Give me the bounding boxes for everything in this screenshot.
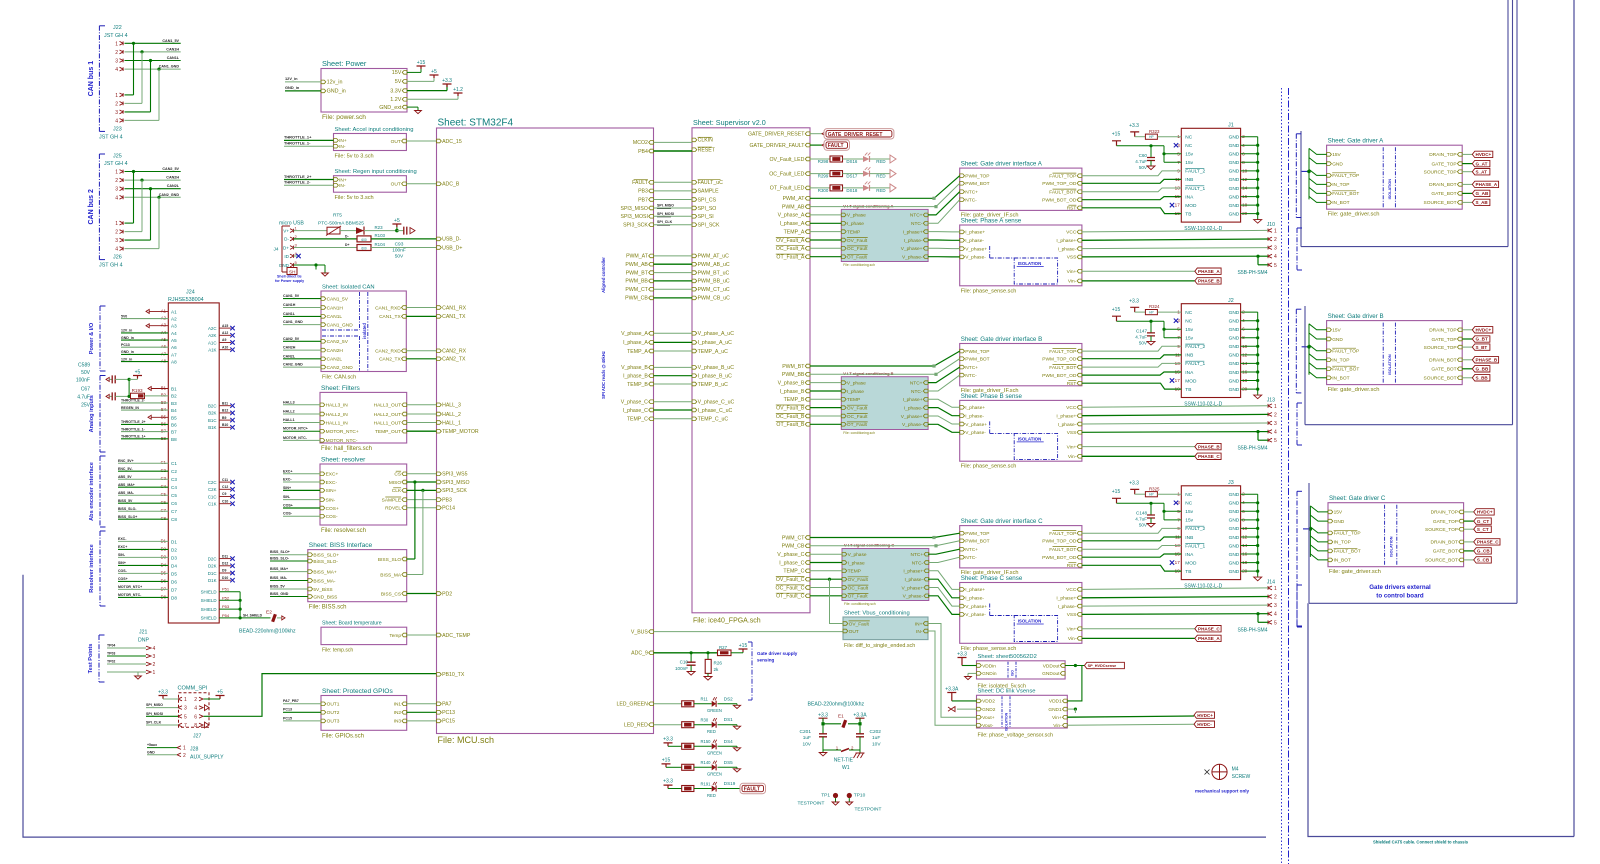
svg-text:BiSS_SLO+: BiSS_SLO+: [313, 553, 339, 559]
svg-text:DRAIN_BOT: DRAIN_BOT: [1429, 358, 1457, 364]
svg-text:15v: 15v: [1185, 518, 1193, 524]
svg-text:PTC-500mA BBM525: PTC-500mA BBM525: [318, 221, 364, 227]
svg-text:PWM_TOP_OD: PWM_TOP_OD: [1042, 181, 1077, 187]
wire bus hall out: [407, 404, 437, 406]
svg-text:TEMP: TEMP: [848, 569, 861, 575]
svg-text:GND_BiSS: GND_BiSS: [313, 594, 337, 600]
svg-text:V_phase+: V_phase+: [901, 414, 923, 420]
bracket J10 cable: [1296, 228, 1298, 270]
bracket Abs encoder interface: [99, 456, 101, 527]
svg-text:Sheet: Vbus_conditioning: Sheet: Vbus_conditioning: [844, 610, 910, 616]
svg-text:5V0: 5V0: [121, 314, 127, 318]
svg-text:C12: C12: [222, 485, 228, 489]
svg-text:600: 600: [361, 238, 367, 242]
svg-text:B5: B5: [171, 415, 177, 420]
svg-text:C2K: C2K: [208, 487, 217, 492]
svg-text:CAN2_5V: CAN2_5V: [283, 337, 300, 341]
ground J2: [1257, 312, 1259, 389]
svg-text:FAULT_2: FAULT_2: [1185, 344, 1205, 350]
svg-text:DS18: DS18: [846, 188, 858, 193]
svg-text:SP_HVDCsense: SP_HVDCsense: [1088, 664, 1117, 668]
svg-text:BISS_SLO+: BISS_SLO+: [270, 550, 290, 554]
isolation boundary phase sense A: [1014, 258, 1057, 284]
svg-text:IN+: IN+: [339, 138, 347, 144]
wire bus supervisor to conditioning B: [810, 382, 841, 384]
svg-text:OT_Fault: OT_Fault: [847, 422, 868, 428]
svg-text:mechanical support only: mechanical support only: [1195, 789, 1250, 794]
svg-text:C93: C93: [395, 241, 404, 247]
svg-text:VCC: VCC: [1066, 587, 1077, 593]
svg-text:+3.3: +3.3: [1129, 481, 1139, 487]
capacitor C10 (100nF): [690, 653, 692, 662]
svg-text:V_phase_C_uC: V_phase_C_uC: [698, 400, 735, 406]
svg-text:P51: P51: [222, 587, 230, 592]
svg-text:THROTTLE_1+: THROTTLE_1+: [121, 435, 146, 439]
svg-text:FAULT_BOT: FAULT_BOT: [1332, 191, 1359, 197]
svg-text:3: 3: [115, 238, 118, 244]
svg-text:CAN2L: CAN2L: [167, 184, 180, 188]
svg-text:GND: GND: [1229, 353, 1240, 359]
svg-text:R325: R325: [1149, 486, 1160, 491]
svg-text:12V_in: 12V_in: [121, 357, 132, 361]
svg-text:12V_in: 12V_in: [285, 76, 298, 81]
svg-text:1: 1: [115, 221, 118, 227]
svg-text:2k: 2k: [714, 667, 720, 672]
svg-text:IN_TOP: IN_TOP: [1334, 540, 1351, 546]
wire bus resolver-MCU SPI3: [407, 473, 437, 475]
svg-text:D2K: D2K: [208, 564, 217, 569]
svg-text:RDVEL: RDVEL: [385, 506, 401, 512]
svg-text:B11: B11: [222, 401, 228, 405]
svg-text:PWM_CB: PWM_CB: [625, 296, 648, 302]
svg-text:PWM_TOP: PWM_TOP: [965, 349, 989, 355]
svg-text:17: 17: [1175, 560, 1181, 565]
svg-text:2: 2: [1274, 237, 1277, 243]
wire bus SPI J27: [146, 707, 178, 709]
LED DS2 (green status): [654, 703, 682, 705]
svg-text:OC_Fault_A: OC_Fault_A: [776, 246, 805, 252]
svg-text:IN+: IN+: [915, 621, 923, 627]
svg-text:to control board: to control board: [1376, 592, 1424, 599]
svg-text:GATE_DRIVER_FAULT: GATE_DRIVER_FAULT: [750, 143, 806, 149]
svg-text:GREEN: GREEN: [707, 751, 722, 756]
svg-text:File: GPIOs.sch: File: GPIOs.sch: [322, 733, 364, 739]
connector J28 (AUX_SUPPLY): [177, 746, 181, 750]
svg-text:PWM_BT_uC: PWM_BT_uC: [698, 270, 730, 276]
svg-text:600: 600: [361, 247, 367, 251]
group B phase wires: [928, 399, 960, 407]
svg-text:OT_Fault_C: OT_Fault_C: [776, 594, 805, 600]
svg-text:OV_Fault_LED: OV_Fault_LED: [770, 157, 805, 163]
svg-text:S_CT: S_CT: [1477, 527, 1489, 532]
svg-text:SPI_SO: SPI_SO: [698, 206, 717, 212]
svg-text:GND: GND: [1332, 161, 1343, 167]
svg-text:Sheet: Power: Sheet: Power: [322, 59, 367, 68]
svg-text:1: 1: [1274, 586, 1277, 592]
svg-text:R140: R140: [701, 760, 712, 765]
svg-text:R26: R26: [714, 661, 723, 666]
svg-text:PWM_BOT_OD: PWM_BOT_OD: [1042, 198, 1077, 204]
svg-text:J2: J2: [1228, 298, 1234, 304]
svg-text:15V: 15V: [1332, 328, 1341, 334]
capacitor C93 (100nF 50V): [397, 230, 404, 232]
ground J1: [1257, 137, 1259, 214]
wire bus supervisor to conditioning A: [810, 214, 841, 216]
svg-text:GND: GND: [1229, 509, 1240, 515]
wire stubs gate driver C: [1309, 506, 1311, 557]
svg-text:TP04: TP04: [107, 644, 115, 648]
ground iso5v GNDin: [968, 672, 977, 674]
svg-text:Gate driver supply: Gate driver supply: [757, 651, 798, 656]
svg-text:+15: +15: [1112, 132, 1121, 138]
svg-text:E2: E2: [266, 610, 272, 616]
svg-text:File: hall_filters.sch: File: hall_filters.sch: [321, 446, 372, 452]
svg-text:File: power.sch: File: power.sch: [322, 114, 366, 121]
svg-text:TB: TB: [1185, 211, 1191, 217]
svg-text:ISOLATION: ISOLATION: [1005, 712, 1009, 731]
svg-text:C589: C589: [78, 363, 90, 369]
svg-text:sensing: sensing: [757, 658, 775, 663]
svg-text:TEMP: TEMP: [847, 229, 860, 235]
svg-text:2: 2: [194, 697, 197, 703]
svg-text:50V: 50V: [395, 254, 404, 260]
svg-text:PC13: PC13: [283, 708, 292, 712]
svg-text:BISS_MA-: BISS_MA-: [270, 576, 288, 580]
isolation boundary phase sense B: [1014, 433, 1057, 459]
svg-text:CAN1_TX: CAN1_TX: [442, 314, 466, 320]
svg-text:PC15: PC15: [442, 719, 455, 725]
svg-text:4: 4: [153, 646, 156, 652]
svg-text:A15: A15: [222, 324, 228, 328]
svg-text:DRAIN_TOP: DRAIN_TOP: [1431, 510, 1458, 516]
svg-text:CAN2_TX: CAN2_TX: [442, 357, 466, 363]
svg-text:OT_Fault_A: OT_Fault_A: [776, 255, 805, 261]
svg-text:15v: 15v: [1185, 509, 1193, 515]
resistor R193: [128, 379, 130, 396]
svg-text:A7: A7: [171, 352, 177, 357]
svg-text:File: MCU.sch: File: MCU.sch: [438, 735, 495, 745]
wire throttle2: [284, 179, 334, 181]
wire bus J22-J23: [133, 43, 135, 95]
svg-text:CAN2_GND: CAN2_GND: [159, 193, 180, 197]
svg-text:SHIELD: SHIELD: [201, 616, 217, 621]
svg-text:+3.3: +3.3: [957, 651, 967, 657]
no-connect J1 MOD pin: [1170, 203, 1174, 207]
svg-text:R191: R191: [701, 781, 712, 786]
svg-text:BISS_SLO: BISS_SLO: [378, 557, 401, 563]
svg-text:GATE_DRIVER_RESET: GATE_DRIVER_RESET: [828, 132, 883, 138]
svg-text:D7: D7: [171, 587, 177, 592]
svg-text:CAN1L: CAN1L: [283, 312, 296, 316]
svg-text:DS17: DS17: [846, 174, 858, 179]
svg-text:MOTOR_NTC-: MOTOR_NTC-: [283, 436, 308, 440]
svg-text:File: phase_sense.sch: File: phase_sense.sch: [961, 288, 1017, 294]
label GATE_DRIVER_RESET: [810, 133, 822, 135]
svg-text:A4: A4: [171, 331, 177, 336]
svg-text:Aligned controller: Aligned controller: [601, 257, 606, 293]
svg-text:TP03: TP03: [107, 652, 115, 656]
svg-text:6: 6: [194, 714, 197, 720]
svg-text:OV_Fault: OV_Fault: [848, 577, 869, 583]
svg-text:FAULT_TOP: FAULT_TOP: [1332, 349, 1359, 355]
svg-text:TB: TB: [1185, 569, 1191, 575]
svg-text:I_phase_A: I_phase_A: [623, 340, 648, 346]
svg-text:CAN2_5V: CAN2_5V: [327, 339, 349, 345]
svg-text:GND: GND: [1229, 143, 1240, 149]
svg-text:TESTPOINT: TESTPOINT: [798, 800, 825, 806]
svg-text:RED: RED: [707, 793, 716, 798]
svg-text:8: 8: [194, 723, 197, 729]
svg-text:C1C: C1C: [208, 494, 217, 499]
svg-text:JST GH 4: JST GH 4: [99, 134, 123, 140]
svg-text:INB: INB: [1185, 353, 1193, 359]
net-tie W1: [823, 749, 841, 751]
power +15: [407, 71, 421, 73]
svg-text:CAN2_GND: CAN2_GND: [327, 365, 354, 371]
resistor R26: [707, 653, 709, 660]
power +5: [407, 80, 434, 82]
svg-text:File: BISS.sch: File: BISS.sch: [309, 605, 347, 611]
svg-text:V+: V+: [283, 228, 289, 233]
svg-text:I_phase_C: I_phase_C: [623, 408, 648, 414]
svg-text:A1K: A1K: [208, 348, 216, 353]
svg-text:5: 5: [1274, 263, 1277, 269]
svg-text:OC_Fault: OC_Fault: [847, 414, 868, 420]
svg-text:CAN1H: CAN1H: [283, 303, 296, 307]
svg-text:C148: C148: [1136, 511, 1147, 516]
svg-text:C11: C11: [222, 478, 228, 482]
svg-text:15v: 15v: [1185, 327, 1193, 333]
svg-text:CAN2L: CAN2L: [327, 357, 343, 363]
svg-text:DS2: DS2: [724, 696, 733, 701]
svg-text:A5: A5: [171, 338, 177, 343]
svg-text:ISOLATION: ISOLATION: [1018, 261, 1042, 266]
svg-text:G_BB: G_BB: [1476, 367, 1489, 372]
svg-text:PWM_AT_uC: PWM_AT_uC: [698, 254, 730, 260]
svg-text:4: 4: [1274, 254, 1277, 260]
svg-text:OUT3: OUT3: [327, 719, 340, 725]
svg-text:HALL1_IN: HALL1_IN: [326, 420, 349, 426]
LED DS16 (OV fault): [810, 158, 830, 160]
wire GND1 stub: [1067, 708, 1075, 710]
svg-text:GATE_BOT: GATE_BOT: [1433, 549, 1458, 555]
svg-text:PHASE_B: PHASE_B: [1198, 279, 1220, 284]
svg-text:5: 5: [1274, 438, 1277, 444]
svg-text:GND: GND: [1229, 336, 1240, 342]
svg-text:SIN+: SIN+: [326, 488, 337, 494]
svg-text:1: 1: [153, 670, 156, 676]
svg-text:VSS: VSS: [1067, 612, 1077, 618]
svg-text:GND: GND: [1229, 526, 1240, 532]
svg-text:CAN bus 2: CAN bus 2: [88, 189, 95, 225]
svg-text:GND: GND: [1229, 319, 1240, 325]
svg-text:J1: J1: [1228, 123, 1234, 129]
svg-text:SPI3_MISO: SPI3_MISO: [442, 480, 469, 486]
svg-text:B2: B2: [161, 393, 167, 398]
svg-text:50V: 50V: [1139, 523, 1148, 528]
svg-text:GND: GND: [1229, 543, 1240, 549]
svg-text:GND_ext: GND_ext: [379, 105, 402, 111]
svg-text:GREEN: GREEN: [707, 772, 722, 777]
svg-text:I_phase_B_uC: I_phase_B_uC: [698, 374, 733, 380]
svg-text:100nF: 100nF: [675, 666, 688, 671]
svg-text:GND: GND: [1229, 370, 1240, 376]
ground GND_ext: [407, 106, 418, 108]
label PHASE_B: [1082, 446, 1195, 448]
svg-text:B1: B1: [161, 386, 167, 391]
svg-text:SOURCE_BOT: SOURCE_BOT: [1424, 376, 1457, 382]
wire CAN to MCU: [406, 307, 436, 309]
label PHASE_C: [1082, 628, 1195, 630]
svg-text:RST: RST: [1067, 381, 1077, 387]
svg-text:V_phase+: V_phase+: [965, 246, 987, 252]
svg-text:VCC: VCC: [1066, 230, 1077, 236]
svg-text:SOURCE_TOP: SOURCE_TOP: [1424, 170, 1457, 176]
label HVDC+: [1067, 716, 1194, 717]
svg-text:V_phase: V_phase: [847, 380, 866, 386]
svg-text:GNDin: GNDin: [982, 671, 997, 677]
svg-text:OC_Fault_B: OC_Fault_B: [776, 414, 805, 420]
svg-text:SIN+: SIN+: [283, 486, 291, 490]
svg-text:OV_Fault_B: OV_Fault_B: [776, 405, 805, 411]
svg-text:SIN-: SIN-: [326, 497, 336, 503]
svg-text:NC: NC: [1185, 501, 1192, 507]
svg-text:Vin-: Vin-: [1068, 454, 1077, 460]
wire shield trunk to bead E2: [239, 592, 241, 618]
svg-text:BEAD-220ohm@100khz: BEAD-220ohm@100khz: [239, 629, 296, 635]
svg-text:GND: GND: [1229, 211, 1240, 217]
svg-text:OT_Fault_LED: OT_Fault_LED: [770, 186, 805, 192]
svg-text:R27: R27: [719, 645, 728, 650]
svg-text:BISS_SLO-: BISS_SLO-: [270, 557, 290, 561]
svg-text:USB_D+: USB_D+: [442, 245, 462, 251]
svg-text:File: conditioning.sch: File: conditioning.sch: [843, 263, 875, 267]
svg-text:ADC_15: ADC_15: [442, 139, 462, 145]
isolation dash boundary (board edge): [1281, 88, 1283, 864]
svg-text:I_phase-: I_phase-: [965, 596, 984, 602]
svg-text:IN-: IN-: [339, 144, 346, 150]
svg-text:C1K: C1K: [208, 502, 217, 507]
svg-text:Sheet: DC link Vsense: Sheet: DC link Vsense: [978, 689, 1036, 695]
svg-text:1uF: 1uF: [803, 735, 811, 741]
svg-text:HP: HP: [1149, 311, 1153, 315]
wire bus MCU-supervisor SPI: [654, 181, 693, 183]
svg-text:GND: GND: [1229, 560, 1240, 566]
svg-text:GND_in: GND_in: [121, 350, 134, 354]
wire bus phase sense to J13: [1082, 406, 1268, 408]
svg-text:CAN1L: CAN1L: [167, 56, 180, 60]
svg-text:A1: A1: [171, 309, 177, 314]
svg-text:C10: C10: [222, 499, 228, 503]
svg-text:B3: B3: [171, 401, 177, 406]
svg-text:IN+: IN+: [339, 177, 347, 183]
svg-text:B2K: B2K: [208, 411, 216, 416]
svg-text:4.7uF: 4.7uF: [1135, 334, 1147, 339]
svg-text:File: resolver.sch: File: resolver.sch: [321, 528, 366, 534]
svg-text:Vin-: Vin-: [1068, 636, 1077, 642]
svg-text:R300: R300: [818, 188, 829, 193]
svg-text:2: 2: [1274, 595, 1277, 601]
svg-text:CAN bus 1: CAN bus 1: [88, 61, 95, 97]
svg-text:HVDC+: HVDC+: [1476, 328, 1492, 333]
svg-text:PB10_TX: PB10_TX: [442, 672, 465, 678]
border control board group: [23, 575, 1266, 837]
svg-text:3: 3: [1274, 246, 1277, 252]
wire J27 pin6 to MCU PB10_TX: [204, 674, 437, 717]
svg-text:ABS_5V: ABS_5V: [118, 475, 132, 479]
svg-text:I_phase-: I_phase-: [905, 577, 924, 583]
svg-text:NC: NC: [1185, 135, 1192, 141]
svg-text:SPI_CS: SPI_CS: [698, 197, 717, 203]
power +3.3A (net tie): [856, 718, 865, 721]
svg-text:4: 4: [1274, 612, 1277, 618]
svg-text:PC13: PC13: [442, 710, 455, 716]
svg-text:FAULT_BOT: FAULT_BOT: [1049, 365, 1076, 371]
svg-text:HP: HP: [1149, 493, 1153, 497]
svg-text:A2: A2: [171, 317, 177, 322]
svg-text:15V: 15V: [1334, 510, 1343, 516]
bracket Analog inputs: [99, 376, 101, 453]
svg-text:PWM_BOT: PWM_BOT: [965, 181, 989, 187]
svg-text:TP10: TP10: [854, 792, 866, 798]
svg-text:PWM_CT: PWM_CT: [625, 287, 648, 293]
svg-text:NTC-: NTC-: [965, 198, 977, 204]
svg-text:THROTTLE_1+: THROTTLE_1+: [284, 135, 312, 140]
svg-text:Sheet: Gate driver B: Sheet: Gate driver B: [1328, 313, 1384, 320]
svg-text:V_phase_B: V_phase_B: [621, 365, 648, 371]
svg-text:+3.3A: +3.3A: [853, 712, 867, 718]
svg-text:S5B-PH-SM4: S5B-PH-SM4: [1238, 445, 1268, 451]
svg-text:COS+: COS+: [283, 504, 293, 508]
svg-text:17: 17: [1175, 378, 1181, 383]
svg-text:+3.3A: +3.3A: [945, 686, 959, 692]
svg-text:NTC-: NTC-: [965, 555, 977, 561]
svg-text:C2: C2: [171, 469, 177, 474]
svg-text:BISS_SLO-: BISS_SLO-: [118, 507, 137, 511]
svg-text:CAN1_5V: CAN1_5V: [327, 296, 349, 302]
svg-text:CLK: CLK: [392, 488, 402, 494]
svg-text:PC13: PC13: [121, 343, 130, 347]
svg-text:SPI3_SCK: SPI3_SCK: [442, 488, 467, 494]
svg-text:V_phase-: V_phase-: [902, 422, 923, 428]
svg-text:PWM_BB_uC: PWM_BB_uC: [698, 279, 730, 285]
svg-text:V_phase_C: V_phase_C: [621, 400, 648, 406]
wire bus gate driver interface B to J2: [1082, 346, 1181, 351]
svg-text:GND: GND: [1229, 152, 1240, 158]
no-connect J2 MOD pin: [1170, 378, 1174, 382]
wire SPI3 shared bus verticals: [414, 482, 416, 559]
svg-text:+15: +15: [1112, 307, 1121, 313]
wire Vbus cond to DC link Vout: [928, 624, 977, 718]
svg-text:IN2: IN2: [394, 710, 402, 716]
svg-text:ISOLATION: ISOLATION: [1018, 436, 1042, 441]
svg-text:CAN1_RXD: CAN1_RXD: [375, 305, 401, 311]
svg-text:V_phase_B: V_phase_B: [778, 380, 805, 386]
svg-text:5V: 5V: [395, 79, 402, 85]
svg-text:J21: J21: [139, 630, 147, 636]
svg-text:Vout+: Vout+: [982, 715, 995, 721]
svg-text:IN3: IN3: [394, 719, 402, 725]
svg-text:Vout-: Vout-: [982, 723, 994, 729]
svg-text:File: gate_driver.sch: File: gate_driver.sch: [1328, 387, 1380, 393]
svg-text:INA: INA: [1185, 194, 1194, 200]
svg-text:A3: A3: [161, 323, 167, 328]
isolation boundary CAN: [359, 292, 361, 330]
svg-text:PWM_CB: PWM_CB: [782, 544, 805, 550]
wire bus phase sense to J10: [1082, 230, 1268, 232]
svg-text:SH_SHIELD: SH_SHIELD: [243, 614, 263, 618]
svg-text:TEMP_C_uC: TEMP_C_uC: [698, 417, 729, 423]
